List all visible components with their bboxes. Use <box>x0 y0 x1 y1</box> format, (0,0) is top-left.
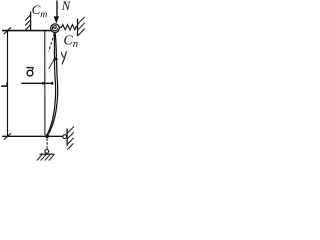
dashed tangent reference at pin <box>49 34 55 52</box>
svg-text:N: N <box>61 0 71 13</box>
bottom bar <box>2 135 63 137</box>
spring Cn (zigzag) <box>59 25 78 30</box>
ground line <box>40 153 55 155</box>
label delta (drawn) <box>26 68 33 76</box>
column original axis (vertical) <box>44 31 46 135</box>
top-left wall (clamp support) <box>30 12 32 31</box>
background <box>0 0 86 163</box>
ground hatching <box>37 154 55 160</box>
bottom node <box>45 134 49 138</box>
bottom-right wall <box>66 129 68 147</box>
label phi <box>61 51 66 64</box>
pin with torsional spring (spiral) <box>51 24 60 33</box>
top bar <box>2 30 51 32</box>
bottom pin circle <box>45 150 49 154</box>
bottom-right wall hatching <box>67 127 74 150</box>
L dimension line (vertical) <box>7 31 9 136</box>
force N arrow <box>54 1 59 24</box>
bottom pin link (dashed stem) <box>46 138 48 149</box>
dimension tick bottom <box>4 133 11 140</box>
deflected column curve (left edge) <box>47 33 56 135</box>
delta dimension line with arrows <box>21 82 53 86</box>
bottom-right link circle <box>63 135 67 139</box>
phi angle arrow <box>49 57 58 69</box>
right top wall hatching <box>78 17 85 36</box>
right top wall <box>77 19 79 36</box>
dimension tick top <box>4 27 11 34</box>
label L (drawn, rotated) <box>1 83 8 87</box>
deflected column curve (right edge) <box>47 33 57 136</box>
top-left wall hatching <box>25 15 31 31</box>
